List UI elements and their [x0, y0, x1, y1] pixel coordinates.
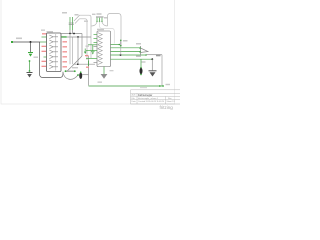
svg-text:fahrtenregler_schem 1: fahrtenregler_schem 1 — [138, 97, 159, 100]
svg-text:Sheet 1/1: Sheet 1/1 — [167, 100, 176, 103]
svg-text:Auth: Auth — [132, 94, 136, 97]
svg-text:Rev: Rev — [168, 98, 172, 100]
svg-text:Created 2013-04-28 11:48:24: Created 2013-04-28 11:48:24 — [138, 100, 165, 103]
svg-text:Fahrtenregler: Fahrtenregler — [138, 94, 153, 97]
svg-text:fritzing: fritzing — [160, 105, 174, 110]
